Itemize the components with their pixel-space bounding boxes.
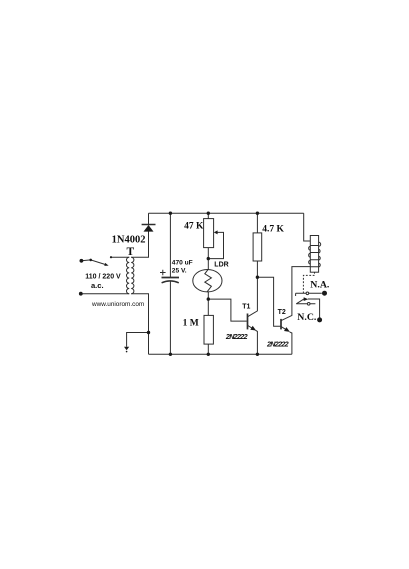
svg-text:2N2222: 2N2222 <box>266 339 289 348</box>
svg-text:N.C.: N.C. <box>297 312 317 323</box>
svg-text:470 uF: 470 uF <box>172 259 193 266</box>
svg-text:2N2222: 2N2222 <box>225 332 248 341</box>
svg-text:4.7 K: 4.7 K <box>262 225 284 235</box>
svg-text:1N4002: 1N4002 <box>112 234 146 245</box>
svg-text:47 K: 47 K <box>184 222 204 232</box>
svg-text:www.uniorom.com: www.uniorom.com <box>91 301 144 308</box>
svg-text:T1: T1 <box>242 304 250 311</box>
svg-text:T2: T2 <box>278 309 286 316</box>
svg-text:T: T <box>126 246 134 258</box>
svg-text:a.c.: a.c. <box>91 281 104 290</box>
svg-text:25 V.: 25 V. <box>172 267 187 274</box>
svg-text:N.A.: N.A. <box>310 280 330 291</box>
svg-text:1 M: 1 M <box>183 318 199 328</box>
svg-text:110 / 220 V: 110 / 220 V <box>85 274 121 281</box>
svg-text:LDR: LDR <box>214 261 228 268</box>
